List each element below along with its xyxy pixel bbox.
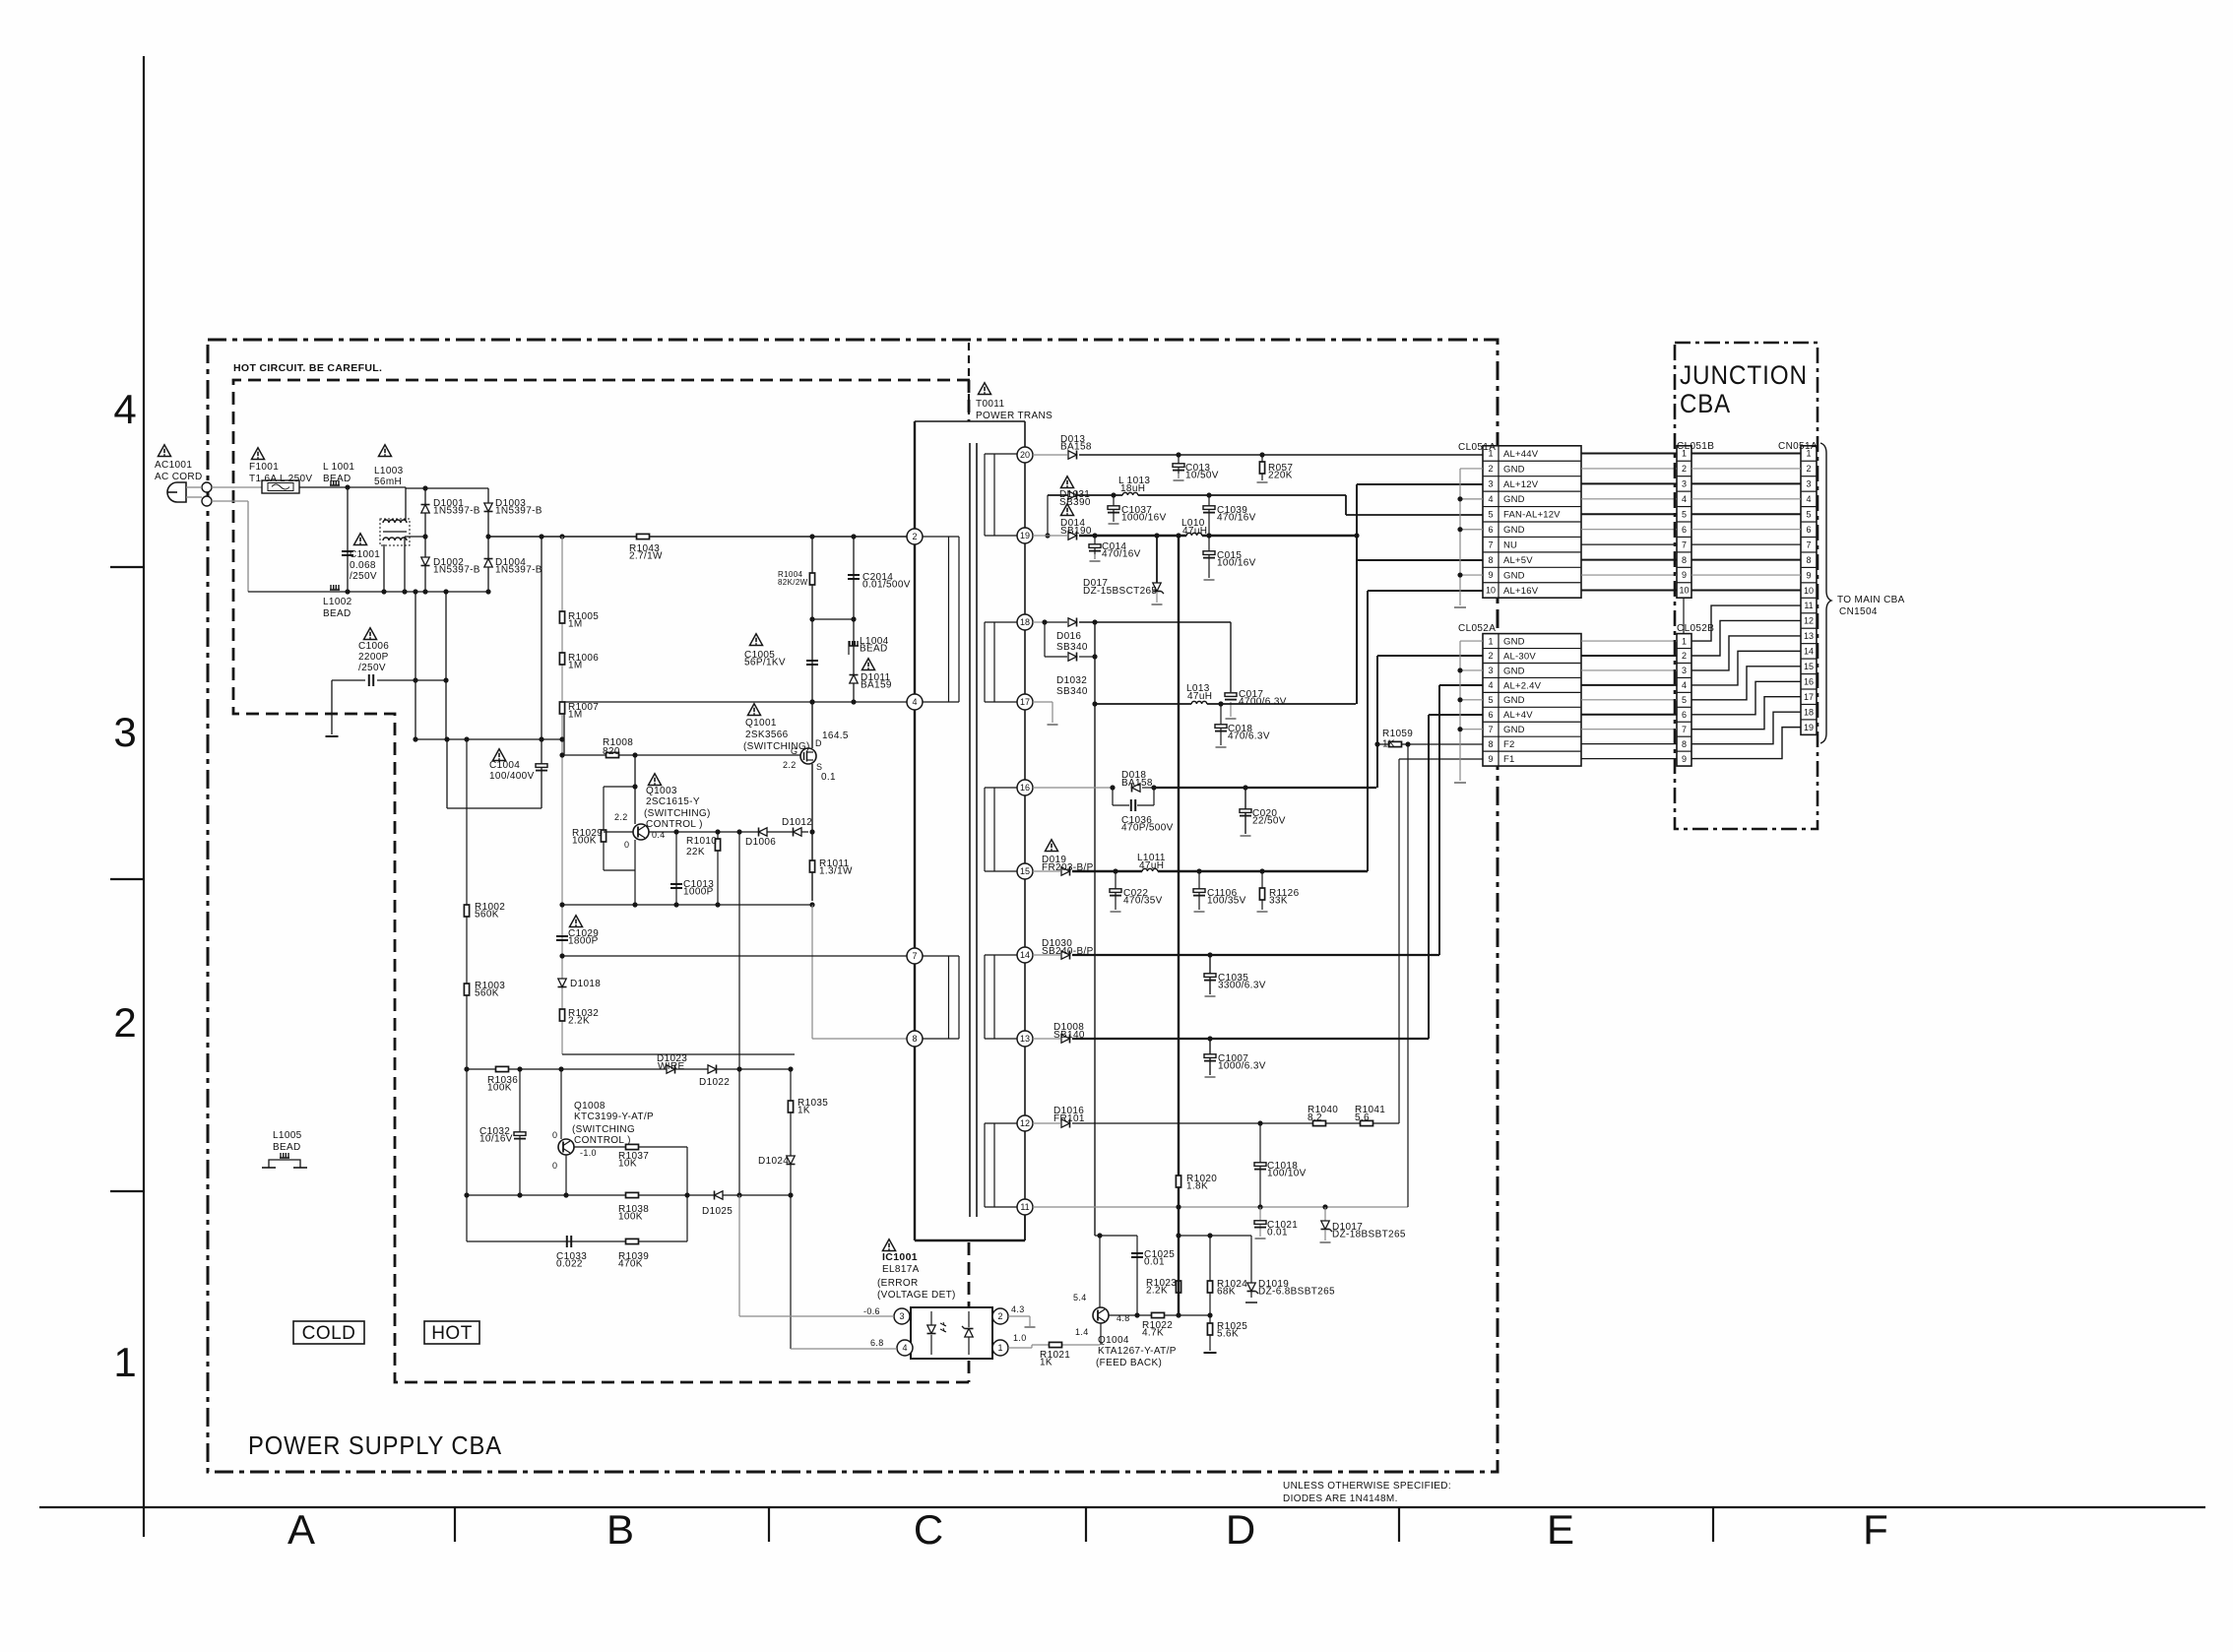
D1025 row xyxy=(467,1194,791,1196)
svg-text:560K: 560K xyxy=(475,910,499,921)
resistor R1037 base row xyxy=(574,1146,687,1148)
verticals from return rail to C1006 row xyxy=(415,592,416,680)
resistor R1022 xyxy=(1152,1312,1165,1317)
svg-text:GND: GND xyxy=(1503,525,1525,536)
svg-text:1M: 1M xyxy=(568,710,583,721)
svg-text:2SK3566: 2SK3566 xyxy=(745,730,789,740)
plug terminals xyxy=(202,482,212,492)
diode D1018 xyxy=(558,979,566,987)
opto pins xyxy=(894,1308,910,1324)
diode D1023 xyxy=(667,1065,675,1073)
diode D1025 xyxy=(715,1191,724,1199)
svg-text:1.0: 1.0 xyxy=(1013,1333,1027,1343)
HOT circuit dashed boundary xyxy=(233,380,970,1382)
svg-text:100/400V: 100/400V xyxy=(489,771,535,782)
diode D1022 xyxy=(708,1065,717,1073)
wire plug to live xyxy=(186,486,202,488)
svg-text:(SWITCHING): (SWITCHING) xyxy=(743,741,810,752)
svg-text:47uH: 47uH xyxy=(1187,691,1212,702)
svg-text:1M: 1M xyxy=(568,661,583,671)
svg-text:GND: GND xyxy=(1503,636,1525,647)
wire CL051B to CL052B xyxy=(1683,598,1685,633)
COLD box xyxy=(293,1321,364,1344)
base row with D1006 D1012 xyxy=(649,831,808,833)
transistor Q1008 xyxy=(558,1139,574,1155)
opto LED xyxy=(930,1311,932,1325)
svg-text:10: 10 xyxy=(1486,586,1496,596)
D1031 row xyxy=(1047,495,1049,536)
svg-text:7: 7 xyxy=(1806,540,1811,549)
row12 wire xyxy=(1033,1122,1060,1124)
pin1 wire to R1021 xyxy=(1008,1347,1032,1349)
wire bridge right column xyxy=(487,488,489,592)
svg-text:AC CORD: AC CORD xyxy=(155,472,203,482)
svg-text:SB340: SB340 xyxy=(1056,686,1088,697)
row16 wire xyxy=(1033,787,1113,789)
staircase CL052B to CN051A rows 11-19 xyxy=(1691,605,1801,641)
svg-text:CONTROL ): CONTROL ) xyxy=(646,819,703,830)
resistor R1025 xyxy=(1209,1315,1211,1351)
svg-text:Q1008: Q1008 xyxy=(574,1101,606,1112)
svg-text:9: 9 xyxy=(1806,570,1811,580)
svg-text:2200P: 2200P xyxy=(358,652,389,663)
wire Q1004 collector xyxy=(1099,1236,1101,1307)
wire return drop xyxy=(247,501,249,592)
junction at C1001 top xyxy=(345,484,350,489)
svg-text:100/10V: 100/10V xyxy=(1267,1169,1307,1179)
svg-text:C: C xyxy=(914,1506,943,1553)
svg-text:BEAD: BEAD xyxy=(323,474,351,484)
capacitor C1035 xyxy=(1209,955,1211,994)
left jog of B+ rail xyxy=(405,536,425,538)
svg-text:AC1001: AC1001 xyxy=(155,460,192,471)
svg-text:22K: 22K xyxy=(686,847,705,858)
svg-text:12: 12 xyxy=(1804,616,1814,626)
svg-text:5.6K: 5.6K xyxy=(1217,1329,1239,1340)
svg-text:1: 1 xyxy=(997,1343,1002,1353)
svg-text:7: 7 xyxy=(1488,725,1493,734)
svg-text:L1002: L1002 xyxy=(323,597,352,607)
wire Q1003 base xyxy=(604,831,633,833)
svg-text:A: A xyxy=(287,1506,315,1553)
capacitor C1029 xyxy=(556,935,568,937)
svg-text:0.1: 0.1 xyxy=(821,772,836,783)
svg-text:HOT CIRCUIT. BE CAREFUL.: HOT CIRCUIT. BE CAREFUL. xyxy=(233,362,382,374)
diode D018 xyxy=(1132,784,1141,792)
zener D017 xyxy=(1156,536,1158,583)
diode D1008 xyxy=(1061,1035,1070,1043)
svg-text:2.2: 2.2 xyxy=(614,812,628,822)
transformer T0011 dashed marker xyxy=(968,343,970,421)
svg-text:CL051A: CL051A xyxy=(1458,442,1496,453)
svg-text:1.4: 1.4 xyxy=(1075,1327,1089,1337)
capacitor C1005 xyxy=(811,619,813,702)
common mode choke L1003 xyxy=(379,445,392,457)
svg-text:470/16V: 470/16V xyxy=(1217,513,1256,524)
svg-text:AL+4V: AL+4V xyxy=(1503,710,1533,721)
HOT box xyxy=(424,1321,479,1344)
svg-text:2.2K: 2.2K xyxy=(568,1016,590,1027)
svg-text:4: 4 xyxy=(912,697,917,707)
svg-text:8: 8 xyxy=(1682,555,1687,565)
wire bridge left column xyxy=(424,488,426,592)
svg-text:L 1001: L 1001 xyxy=(323,462,354,473)
frame bottom ruler xyxy=(39,1506,2205,1508)
svg-text:1N5397-B: 1N5397-B xyxy=(433,506,480,517)
svg-text:AL+2.4V: AL+2.4V xyxy=(1503,680,1542,691)
diode D014 xyxy=(1068,532,1077,540)
svg-text:100K: 100K xyxy=(572,836,597,847)
wire into choke xyxy=(405,487,407,520)
svg-text:17: 17 xyxy=(1020,697,1030,707)
row11 wire xyxy=(1033,1206,1408,1208)
vertical AL+2.4V pin4 to row14 xyxy=(1438,685,1440,955)
svg-text:1.8K: 1.8K xyxy=(1186,1181,1208,1192)
frame tick xyxy=(1085,1507,1087,1542)
svg-text:16: 16 xyxy=(1020,783,1030,793)
svg-text:NU: NU xyxy=(1503,540,1517,551)
row 8 jog xyxy=(562,1053,795,1055)
bottom row C1033 R1039 xyxy=(467,1240,687,1242)
long feedback vertical xyxy=(738,832,740,1195)
capacitor C1106 xyxy=(1198,871,1200,910)
svg-text:18: 18 xyxy=(1020,617,1030,627)
wires CL052A to CL052B xyxy=(1581,640,1677,642)
svg-text:1000/16V: 1000/16V xyxy=(1121,513,1167,524)
bead L1004 xyxy=(853,619,855,702)
capacitor C1006 xyxy=(364,628,377,640)
svg-text:GND: GND xyxy=(1503,695,1525,706)
svg-text:C1001: C1001 xyxy=(350,549,380,560)
svg-text:D1018: D1018 xyxy=(570,979,601,989)
resistor R1024 xyxy=(1209,1236,1211,1315)
resistor R057 xyxy=(1261,455,1263,480)
svg-text:GND: GND xyxy=(1503,464,1525,475)
svg-text:SB340: SB340 xyxy=(1056,642,1088,653)
svg-text:DZ-15BSCT265: DZ-15BSCT265 xyxy=(1083,586,1157,597)
svg-text:6.8: 6.8 xyxy=(870,1338,884,1348)
connector CL052A xyxy=(1483,634,1581,766)
transformer pins right xyxy=(1017,447,1033,463)
resistor R1004 xyxy=(811,537,813,619)
svg-text:4700/6.3V: 4700/6.3V xyxy=(1239,697,1287,708)
svg-text:19: 19 xyxy=(1020,531,1030,540)
row17 ground stub xyxy=(1033,701,1053,703)
capacitor C015 xyxy=(1208,536,1210,578)
transformer top edge xyxy=(915,420,1025,422)
svg-text:2.2: 2.2 xyxy=(783,760,797,770)
svg-text:Q1003: Q1003 xyxy=(646,786,677,796)
svg-text:GND: GND xyxy=(1503,570,1525,581)
transformer pins left xyxy=(907,529,923,544)
row14 wire xyxy=(1033,954,1060,956)
capacitor C2014 xyxy=(853,537,855,619)
JUNCTION CBA dash-dot box xyxy=(1675,343,1818,829)
capacitor C1036 loop xyxy=(1112,788,1114,805)
svg-text:BEAD: BEAD xyxy=(860,644,888,655)
transistor Q1003 xyxy=(633,824,649,840)
svg-text:GND: GND xyxy=(1503,725,1525,735)
svg-text:F: F xyxy=(1863,1506,1888,1553)
svg-text:(VOLTAGE DET): (VOLTAGE DET) xyxy=(877,1290,956,1301)
vertical AL-30V pin2 to row16 xyxy=(1376,656,1378,788)
svg-text:11: 11 xyxy=(1804,601,1813,610)
svg-text:100K: 100K xyxy=(618,1212,643,1223)
svg-text:2: 2 xyxy=(997,1311,1002,1321)
svg-text:T1.6A L 250V: T1.6A L 250V xyxy=(249,474,312,484)
resistor R1040 xyxy=(1313,1120,1326,1125)
capacitor C1013 xyxy=(675,832,677,905)
svg-text:(ERROR: (ERROR xyxy=(877,1278,919,1289)
svg-text:/250V: /250V xyxy=(358,663,386,673)
svg-text:5: 5 xyxy=(1682,695,1687,705)
svg-text:7: 7 xyxy=(912,951,917,961)
wire drop to gate rail xyxy=(563,702,565,755)
wire Q1004 emitter xyxy=(1100,1323,1102,1345)
svg-text:3: 3 xyxy=(899,1311,904,1321)
svg-text:TO MAIN CBA: TO MAIN CBA xyxy=(1837,595,1905,605)
ground bus CL052A xyxy=(1459,641,1461,781)
svg-text:BEAD: BEAD xyxy=(273,1142,301,1153)
svg-text:DZ-18BSBT265: DZ-18BSBT265 xyxy=(1332,1230,1406,1240)
svg-text:3300/6.3V: 3300/6.3V xyxy=(1218,981,1266,991)
vertical bus pin3-pin8-L013 xyxy=(1356,484,1358,704)
svg-text:Q1001: Q1001 xyxy=(745,718,777,729)
svg-text:1.3/1W: 1.3/1W xyxy=(819,866,853,877)
primary winding bars pins 7-8 xyxy=(923,955,959,957)
diode D1001 xyxy=(421,505,429,514)
svg-text:10/16V: 10/16V xyxy=(479,1134,513,1145)
svg-text:8: 8 xyxy=(1806,555,1811,565)
svg-text:FAN-AL+12V: FAN-AL+12V xyxy=(1503,510,1561,521)
svg-text:T0011: T0011 xyxy=(976,399,1004,410)
svg-text:1N5397-B: 1N5397-B xyxy=(495,506,542,517)
svg-text:2: 2 xyxy=(1488,651,1493,661)
capacitor C1007 xyxy=(1209,1039,1211,1075)
svg-text:D016: D016 xyxy=(1056,631,1081,642)
svg-text:1M: 1M xyxy=(568,619,583,630)
svg-text:GND: GND xyxy=(1503,494,1525,505)
resistor R1011 xyxy=(809,860,814,872)
svg-text:CONTROL ): CONTROL ) xyxy=(574,1135,631,1146)
svg-text:CBA: CBA xyxy=(1680,389,1731,418)
svg-text:F1: F1 xyxy=(1503,754,1515,765)
svg-text:POWER SUPPLY CBA: POWER SUPPLY CBA xyxy=(248,1430,502,1460)
svg-text:220K: 220K xyxy=(1268,471,1293,481)
svg-text:47uH: 47uH xyxy=(1139,860,1164,871)
vertical F1 to row12 xyxy=(1398,759,1400,1123)
svg-text:2: 2 xyxy=(912,532,917,541)
svg-text:2: 2 xyxy=(1682,464,1687,474)
coil L1011 xyxy=(1142,869,1158,874)
svg-text:9: 9 xyxy=(1682,570,1687,580)
svg-text:4: 4 xyxy=(113,386,136,432)
transformer primary rail xyxy=(914,421,916,1240)
transformer bottom path to pin11 xyxy=(915,1239,1025,1241)
svg-text:2SC1615-Y: 2SC1615-Y xyxy=(646,796,700,807)
svg-text:19: 19 xyxy=(1804,723,1814,732)
svg-text:WIRE: WIRE xyxy=(658,1061,685,1072)
MOSFET Q1001 xyxy=(800,748,816,764)
wire Q1008 collector xyxy=(560,1069,562,1139)
svg-text:2.2K: 2.2K xyxy=(1146,1286,1168,1297)
svg-text:11: 11 xyxy=(1020,1202,1029,1212)
svg-text:15: 15 xyxy=(1020,866,1030,876)
diode D1002 xyxy=(421,557,429,566)
resistor R1020 xyxy=(1176,1175,1180,1187)
resistor R1010 xyxy=(717,832,719,905)
wire C1006 to rail xyxy=(415,680,416,739)
svg-text:-0.6: -0.6 xyxy=(863,1306,880,1316)
diode D1006 xyxy=(759,828,768,836)
svg-text:56P/1KV: 56P/1KV xyxy=(744,658,786,668)
svg-text:1: 1 xyxy=(1682,636,1687,646)
frame tick xyxy=(1712,1507,1714,1542)
svg-text:16: 16 xyxy=(1804,676,1814,686)
zener D1019 xyxy=(1250,1236,1252,1298)
gate drive rail R1008 xyxy=(562,754,800,756)
svg-text:SB390: SB390 xyxy=(1059,497,1091,508)
svg-text:B: B xyxy=(606,1506,634,1553)
svg-text:(FEED BACK): (FEED BACK) xyxy=(1096,1358,1162,1368)
svg-text:D1022: D1022 xyxy=(699,1077,730,1088)
svg-text:D1032: D1032 xyxy=(1056,675,1087,686)
bottom return wire xyxy=(248,591,488,593)
svg-text:0.01/500V: 0.01/500V xyxy=(862,580,911,591)
diode D1012 xyxy=(794,828,802,836)
svg-text:DZ-6.8BSBT265: DZ-6.8BSBT265 xyxy=(1258,1287,1335,1298)
drawing frame left border xyxy=(143,56,145,1537)
resistor R1021 xyxy=(1050,1342,1062,1347)
svg-text:1N5397-B: 1N5397-B xyxy=(433,565,480,576)
capacitor C018 xyxy=(1220,704,1222,745)
svg-text:1N5397-B: 1N5397-B xyxy=(495,565,542,576)
svg-text:D1006: D1006 xyxy=(745,837,776,848)
bead L1002 xyxy=(330,589,340,591)
svg-text:6: 6 xyxy=(1488,710,1493,720)
svg-text:F2: F2 xyxy=(1503,739,1515,750)
svg-text:C1004: C1004 xyxy=(489,760,520,771)
svg-text:7: 7 xyxy=(1682,540,1687,549)
R1002 R1003 chain xyxy=(466,739,468,1241)
svg-text:5: 5 xyxy=(1488,695,1493,705)
capacitor C1037 xyxy=(1113,495,1115,522)
top row y1255 xyxy=(1095,1235,1137,1237)
svg-text:82K/2W: 82K/2W xyxy=(778,578,808,587)
D1023 row xyxy=(467,1068,791,1070)
capacitor C1039 xyxy=(1208,495,1210,536)
svg-text:12: 12 xyxy=(1020,1118,1030,1128)
svg-text:E: E xyxy=(1547,1506,1574,1553)
wire to pin3 AL+12V xyxy=(1357,483,1483,485)
vertical pin10 to row15 xyxy=(1367,591,1369,871)
wire to pin8 AL+5V xyxy=(1357,559,1483,561)
svg-text:10: 10 xyxy=(1679,586,1689,596)
coil L013 xyxy=(1191,702,1207,707)
primary winding bars pins 2-4 xyxy=(923,536,959,538)
svg-text:R1010: R1010 xyxy=(686,836,717,847)
diode D013 xyxy=(1068,451,1077,459)
B+ rail xyxy=(488,536,907,538)
svg-text:BA158: BA158 xyxy=(1060,442,1092,453)
svg-text:8: 8 xyxy=(1488,739,1493,749)
ground bus CL051A xyxy=(1459,469,1461,605)
row19 wire xyxy=(1033,535,1067,537)
vertical AL+4V pin6 to row13 xyxy=(1428,715,1430,1039)
coil L1013 xyxy=(1122,493,1138,498)
wire C1006 to ground xyxy=(331,680,333,734)
svg-text:56mH: 56mH xyxy=(374,477,402,487)
svg-text:470/6.3V: 470/6.3V xyxy=(1228,731,1270,742)
svg-text:2.7/1W: 2.7/1W xyxy=(629,551,663,562)
dashed isolation top segment xyxy=(968,380,971,421)
svg-text:6: 6 xyxy=(1682,710,1687,720)
diode D1032 xyxy=(1068,653,1077,661)
wire fuse to choke xyxy=(299,486,406,488)
resistor R1041 xyxy=(1361,1120,1373,1125)
svg-text:3: 3 xyxy=(1682,666,1687,675)
wire plug return xyxy=(212,500,248,502)
R1005-R1007 divider chain xyxy=(561,537,563,1054)
transformer secondary rail xyxy=(1024,421,1026,1240)
svg-text:D: D xyxy=(1226,1506,1255,1553)
capacitor C1021 xyxy=(1259,1207,1261,1237)
capacitor C1032 xyxy=(519,1069,521,1195)
svg-text:22/50V: 22/50V xyxy=(1252,816,1286,827)
secondary winding bars xyxy=(984,454,986,536)
svg-text:Q1004: Q1004 xyxy=(1098,1335,1129,1346)
svg-text:5.4: 5.4 xyxy=(1073,1293,1087,1303)
frame tick xyxy=(110,566,144,568)
svg-text:5.6: 5.6 xyxy=(1355,1112,1370,1123)
svg-text:DIODES ARE 1N4148M.: DIODES ARE 1N4148M. xyxy=(1283,1493,1398,1504)
pin2 ground xyxy=(1008,1315,1030,1317)
brace to main CBA xyxy=(1820,443,1831,743)
svg-text:1: 1 xyxy=(113,1339,136,1385)
svg-text:8: 8 xyxy=(912,1034,917,1044)
frame tick xyxy=(1398,1507,1400,1542)
svg-text:-1.0: -1.0 xyxy=(580,1148,597,1158)
capacitor C1001 xyxy=(347,487,349,592)
svg-text:2: 2 xyxy=(1682,651,1687,661)
zener D1017 xyxy=(1324,1207,1326,1221)
svg-text:18: 18 xyxy=(1804,707,1814,717)
svg-text:820: 820 xyxy=(603,746,620,757)
POWER SUPPLY CBA dash-dot border xyxy=(208,340,1498,1472)
svg-text:CL052B: CL052B xyxy=(1677,623,1714,634)
svg-text:14: 14 xyxy=(1020,950,1030,960)
svg-text:164.5: 164.5 xyxy=(822,731,849,741)
svg-text:5: 5 xyxy=(1682,509,1687,519)
svg-text:1: 1 xyxy=(1488,636,1493,646)
svg-text:4: 4 xyxy=(1682,680,1687,690)
svg-text:100/35V: 100/35V xyxy=(1207,896,1246,907)
svg-text:8: 8 xyxy=(1682,739,1687,749)
svg-text:POWER TRANS: POWER TRANS xyxy=(976,411,1053,421)
diode D1031 xyxy=(1068,491,1077,499)
connector CL051B xyxy=(1677,446,1691,598)
transistor Q1004 xyxy=(1093,1307,1109,1323)
svg-text:L1005: L1005 xyxy=(273,1130,302,1141)
frame tick xyxy=(110,878,144,880)
svg-text:6: 6 xyxy=(1488,525,1493,535)
resistor R1035 xyxy=(788,1101,793,1112)
jog to pin3 xyxy=(1345,495,1347,515)
vertical join xyxy=(1094,622,1096,1236)
grey wire to pin8 xyxy=(811,905,813,1039)
svg-text:D1024: D1024 xyxy=(758,1156,789,1167)
svg-text:BA159: BA159 xyxy=(861,680,892,691)
